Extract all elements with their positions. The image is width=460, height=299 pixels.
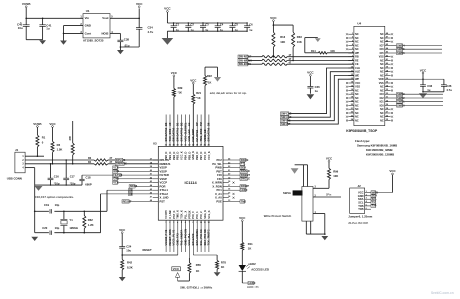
net label RESET at U3 [122, 199, 153, 203]
net label X2 [129, 192, 133, 196]
svg-text:ACCESS LED: ACCESS LED [251, 268, 269, 272]
wire R56 to VCO [178, 280, 190, 282]
svg-text:F46: F46 [217, 177, 222, 181]
svg-text:IO1: IO1 [380, 101, 385, 104]
svg-text:C4: C4 [220, 22, 224, 26]
power net VUSB [22, 2, 31, 18]
svg-text:SW-DATA6: SW-DATA6 [207, 127, 211, 141]
net label TMS at U3 right [229, 199, 247, 203]
svg-text:CL: CL [183, 122, 187, 126]
wire U3 bottom pin 5 [179, 220, 183, 252]
svg-text:TCK_K: TCK_K [180, 210, 184, 219]
svg-text:PIO_0: PIO_0 [191, 211, 195, 219]
power net VCC at cap bank [164, 7, 171, 23]
svg-text:SWENT: SWENT [241, 173, 251, 177]
svg-text:C3: C3 [205, 22, 209, 26]
svg-text:V1: V1 [172, 229, 176, 233]
svg-text:NC: NC [355, 33, 359, 36]
power net VCC above R39 [171, 71, 178, 88]
svg-text:NC: NC [380, 89, 384, 92]
net label SWWP at U3 right [229, 184, 249, 188]
resistor R33 [292, 25, 303, 61]
net SW-WEN0 row [238, 58, 354, 62]
svg-text:PWB: PWB [215, 166, 221, 170]
wire VCC to R33 top [273, 24, 294, 26]
svg-text:C17: C17 [70, 174, 75, 178]
svg-text:NC: NC [355, 93, 359, 96]
svg-text:WE: WE [355, 74, 359, 77]
svg-text:VSS: VSS [379, 56, 384, 59]
gray arrow at switch [291, 168, 299, 173]
svg-text:+: + [20, 20, 22, 24]
net pointer VCO [172, 267, 181, 281]
crystal Y1 [60, 211, 78, 232]
U4 part number label [346, 129, 378, 133]
resistor R39 [172, 86, 183, 146]
wire U3 top pin 30 [187, 115, 191, 147]
resistor R2 [51, 141, 62, 164]
svg-text:R22: R22 [207, 74, 212, 78]
wire U3 top pin 32 [179, 115, 183, 147]
svg-text:1u: 1u [46, 27, 50, 31]
power net VCC at U4 [420, 68, 427, 79]
wire C34 bottom to ground rail [120, 46, 140, 48]
svg-text:K9F1608U0B_32MB: K9F1608U0B_32MB [366, 148, 393, 152]
power net VCC at reset [119, 228, 126, 247]
svg-text:WP: WP [355, 52, 359, 55]
svg-text:RS: RS [168, 229, 172, 233]
wire RESET net [122, 248, 178, 255]
svg-text:RE: RE [355, 59, 359, 62]
microcontroller U3 IC1114 [150, 141, 231, 223]
capacitor C24 [119, 244, 132, 259]
svg-text:SDA: SDA [241, 165, 247, 169]
svg-text:ALE: ALE [355, 71, 360, 74]
ground rail under C16 C17 [35, 184, 82, 185]
connector J2 [350, 184, 365, 214]
wire switch bottom pins [306, 221, 325, 235]
svg-text:R21: R21 [196, 91, 201, 95]
svg-text:VCC: VCC [239, 216, 246, 220]
svg-text:VCC: VCC [171, 71, 178, 75]
capacitor C4 [215, 22, 224, 32]
wire C33 C36 bottom rail [422, 91, 444, 93]
svg-text:V3: V3 [164, 229, 168, 233]
svg-text:PC2: PC2 [216, 158, 222, 162]
svg-text:PB5_D: PB5_D [187, 152, 191, 160]
watermark [431, 291, 454, 295]
svg-text:X_RON: X_RON [212, 184, 221, 188]
net label WRB at J2 [371, 190, 378, 194]
svg-text:D1: D1 [176, 122, 180, 126]
svg-text:XTAL1: XTAL1 [160, 188, 169, 192]
svg-text:R78: R78 [221, 260, 226, 264]
net SW-CLE stair wire [281, 68, 354, 115]
wire U3 top pin 28 [195, 115, 199, 147]
svg-text:4.7u: 4.7u [446, 88, 452, 92]
svg-text:SDA_K: SDA_K [203, 210, 207, 219]
svg-text:IO5: IO5 [380, 52, 385, 55]
svg-text:R14: R14 [311, 50, 316, 53]
svg-text:VCC: VCC [190, 78, 197, 82]
svg-text:10p: 10p [55, 226, 60, 230]
net SWD0 at U4 [391, 103, 443, 107]
svg-text:U1: U1 [86, 9, 90, 13]
svg-text:*1K: *1K [196, 96, 200, 100]
power net VCC at J2 [376, 169, 396, 192]
net label PT1 at U3 right [229, 162, 246, 166]
capacitor C34 [136, 18, 153, 47]
power net VCC above R99 [326, 157, 333, 169]
svg-text:TA: TA [179, 230, 183, 233]
net label SDA at J2 [371, 194, 377, 198]
svg-text:TX0: TX0 [372, 204, 377, 208]
net label SWCLE at U3 right [229, 177, 250, 181]
svg-text:C1: C1 [176, 22, 180, 26]
svg-text:1K: 1K [248, 247, 252, 251]
svg-text:1u: 1u [191, 28, 194, 32]
svg-text:IO2: IO2 [380, 97, 385, 100]
svg-text:SWCLE: SWCLE [241, 177, 251, 181]
svg-text:FC6_SWP: FC6_SWP [191, 129, 195, 142]
svg-text:NOIS: NOIS [101, 31, 108, 35]
resistor R62 [83, 211, 94, 232]
svg-text:VCC: VCC [49, 122, 56, 126]
svg-text:VUSB: VUSB [22, 2, 31, 6]
svg-text:Vout: Vout [102, 16, 108, 20]
svg-text:VCC_CLE33: VCC_CLE33 [183, 126, 187, 142]
crystal bottom wire [35, 232, 101, 234]
net SW-WB stair wire [281, 76, 354, 123]
svg-text:R42: R42 [127, 261, 132, 265]
svg-text:NC: NC [355, 116, 359, 119]
svg-text:SW1A: SW1A [283, 191, 291, 195]
svg-text:10K: 10K [280, 40, 285, 44]
svg-text:10K: 10K [297, 40, 302, 44]
svg-text:TCK_TMS: TCK_TMS [207, 233, 211, 246]
net SW-ALE stair wire [281, 72, 354, 119]
net label X1 [129, 188, 133, 192]
wire U3 bottom pin 4 reset [176, 220, 180, 255]
net label GND at U3 pin 42 [113, 177, 153, 181]
svg-text:X_A0: X_A0 [215, 196, 222, 200]
svg-text:VCC: VCC [326, 157, 333, 161]
svg-text:U3: U3 [153, 141, 157, 145]
wire switch pin3 [313, 187, 329, 189]
svg-text:VCC: VCC [164, 7, 171, 11]
svg-text:SWCE: SWCE [241, 158, 249, 162]
net SWD6 at U4 [391, 51, 442, 55]
svg-text:C19: C19 [44, 203, 49, 207]
capacitor C20 [42, 226, 59, 235]
power net VCC at R2 [49, 122, 56, 142]
svg-text:X_WRN: X_WRN [212, 181, 222, 185]
svg-text:1u: 1u [205, 28, 208, 32]
svg-text:PB4_D: PB4_D [183, 152, 187, 160]
resistor R30 [68, 121, 74, 165]
svg-text:GND_TA2: GND_TA2 [176, 233, 180, 246]
svg-text:C5: C5 [235, 22, 239, 26]
wire XTAL2 to crystal [101, 194, 153, 233]
wire U1 GND pin2 [63, 26, 83, 41]
svg-text:R1: R1 [42, 136, 46, 140]
net label SWENT at U3 right [229, 173, 251, 177]
svg-text:1u: 1u [235, 28, 238, 32]
svg-text:VSS: VSS [379, 82, 384, 85]
wire switch pin1 [313, 212, 325, 234]
resistor R14 [305, 38, 354, 54]
svg-text:NC: NC [355, 108, 359, 111]
wire U3 bottom pin 8 r78 [191, 220, 217, 255]
svg-text:NC: NC [380, 112, 384, 115]
svg-text:SWALE: SWALE [241, 169, 251, 173]
ground under cap bank [162, 38, 174, 45]
svg-text:Cont: Cont [85, 31, 92, 35]
svg-text:X1: X1 [129, 188, 133, 192]
svg-text:VCN_LE0: VCN_LE0 [187, 129, 191, 142]
svg-text:C38: C38 [124, 37, 130, 41]
power net VCC above R13 [270, 16, 277, 25]
capacitor C33 [420, 79, 433, 92]
svg-text:NC: NC [380, 41, 384, 44]
wire U1 Cont pin3 [64, 32, 84, 34]
svg-text:NC: NC [355, 41, 359, 44]
svg-text:VDD: VDD [378, 78, 383, 81]
svg-text:C33: C33 [427, 84, 432, 88]
net label SWCE at U3 right [229, 158, 249, 162]
net SWD5 at U4 [391, 47, 442, 51]
svg-text:K9F0808U0B_TSOP: K9F0808U0B_TSOP [346, 129, 378, 133]
svg-text:VCC1_LE: VCC1_LE [203, 129, 207, 141]
net label GND at U3 pin 40 [113, 169, 153, 173]
svg-text:LED0 : P1: LED0 : P1 [247, 286, 259, 289]
resistor R42 [121, 259, 133, 277]
svg-text:C20: C20 [42, 226, 47, 230]
svg-text:PB3_D: PB3_D [176, 152, 180, 160]
svg-text:X2: X2 [129, 192, 133, 196]
cap bank top rail [167, 22, 247, 24]
resistor R3 series [88, 157, 113, 161]
svg-text:300: 300 [68, 136, 72, 141]
ground under C33 [419, 93, 427, 98]
power net VUSB at R1 [33, 122, 41, 135]
wire cap bottoms rail [26, 39, 42, 41]
note write protect [264, 214, 292, 218]
LED LED2 ACCESS [239, 262, 269, 283]
svg-text:XTAL2: XTAL2 [160, 192, 169, 196]
switch SW1 body [283, 187, 313, 222]
svg-text:D6: D6 [207, 122, 211, 126]
svg-text:POR: POR [160, 184, 166, 188]
svg-text:LE: LE [187, 122, 191, 126]
wire J1 pin4 GND [25, 168, 35, 186]
svg-text:PC0_D: PC0_D [203, 152, 207, 160]
ground under C41 [39, 40, 46, 44]
svg-text:PC1: PC1 [216, 188, 222, 192]
svg-text:SML-32THD(L) : x 36MHz: SML-32THD(L) : x 36MHz [180, 285, 213, 289]
svg-text:TMS_SW0: TMS_SW0 [199, 128, 203, 141]
svg-text:10K: 10K [333, 174, 338, 178]
svg-text:1u: 1u [220, 28, 223, 32]
svg-text:VSSP: VSSP [160, 177, 167, 181]
svg-text:R56: R56 [196, 263, 201, 267]
U3 right no-connect [233, 197, 235, 199]
svg-text:U4: U4 [357, 21, 361, 25]
svg-text:VUSB: VUSB [33, 122, 41, 126]
net label SWALE at U3 right [229, 169, 250, 173]
svg-text:RB: RB [355, 56, 359, 59]
wire U3 bottom pin 3 [172, 220, 176, 252]
svg-text:FILTER: FILTER [113, 173, 122, 177]
U3 right no-connect [233, 182, 235, 184]
svg-text:R39: R39 [178, 86, 183, 90]
svg-text:SW-DATA5: SW-DATA5 [164, 127, 168, 141]
ground under U1 GND [60, 41, 67, 45]
gray arrow node above R14 [305, 38, 321, 42]
svg-text:SDA_PIO: SDA_PIO [203, 234, 207, 246]
svg-text:CLE: CLE [355, 67, 360, 70]
svg-text:SCL_K: SCL_K [207, 210, 211, 219]
svg-text:IO7: IO7 [380, 44, 385, 47]
svg-text:SC: SC [199, 229, 203, 233]
svg-text:.01u: .01u [124, 44, 130, 48]
svg-text:VCC1_PL: VCC1_PL [172, 233, 176, 245]
resistor R11 [241, 242, 253, 265]
svg-text:VCO_PLL: VCO_PLL [187, 233, 191, 246]
ground under R42 [119, 277, 126, 281]
net label SWD6 [129, 184, 153, 188]
svg-text:C2: C2 [191, 22, 195, 26]
net label SDA at U3 right [229, 165, 246, 169]
wire U3 bottom pin 11 [203, 220, 207, 252]
wire U3 bottom pin 12 [207, 220, 211, 252]
resistor R78 [216, 255, 227, 272]
wire J1 pin1 VBUS [25, 155, 44, 157]
power net VCC at regulator output [136, 2, 143, 18]
svg-text:R33: R33 [297, 35, 302, 39]
resistor R4 series [88, 161, 113, 165]
voltage regulator U1 [80, 9, 113, 43]
svg-text:1u: 1u [249, 28, 252, 32]
svg-text:SWA-MS0: SWA-MS0 [195, 233, 199, 246]
note C16 C17 [35, 195, 74, 199]
svg-text:PST: PST [160, 199, 166, 203]
svg-text:NA-RP33: NA-RP33 [195, 130, 199, 142]
wire U3 bottom pin 10 [199, 220, 203, 252]
J2 pin stubs [365, 191, 371, 210]
wire U3 top pin 27 [199, 115, 203, 147]
svg-text:VSSP: VSSP [160, 166, 167, 170]
svg-text:D2: D2 [179, 122, 183, 126]
wire J1 pin3 D+ [25, 163, 94, 165]
ground under C38 [117, 50, 124, 54]
cap bank bottom rail [167, 31, 247, 38]
svg-text:C34: C34 [148, 26, 154, 30]
svg-text:K9F2808U0B_128MB: K9F2808U0B_128MB [366, 152, 394, 156]
capacitor C17 [63, 159, 76, 185]
svg-text:NC: NC [355, 44, 359, 47]
note about wires [210, 91, 247, 95]
wire U3 top pin 25 [207, 115, 211, 147]
U3 right no-connect [233, 193, 235, 195]
svg-text:Write Protect Switch: Write Protect Switch [264, 214, 292, 218]
capacitor C5 [229, 22, 238, 32]
svg-text:PB1_D: PB1_D [168, 152, 172, 160]
power net VCC above R21 [190, 78, 197, 94]
svg-text:C36: C36 [446, 84, 451, 88]
svg-text:TC: TC [207, 229, 211, 233]
svg-text:SeekIC.com.cn: SeekIC.com.cn [431, 291, 454, 295]
svg-text:12MHz: 12MHz [69, 226, 78, 230]
wire switch pin2 [313, 193, 341, 197]
svg-text:1.2K: 1.2K [88, 223, 94, 227]
net SW-NCEF row [238, 54, 354, 58]
net label DPLUS [108, 158, 158, 162]
wire U1 Vout to VCC node [110, 18, 140, 20]
resistor R21 [191, 91, 202, 146]
svg-text:NC: NC [380, 63, 384, 66]
svg-text:NC: NC [380, 108, 384, 111]
svg-text:NC: NC [380, 74, 384, 77]
svg-text:LED0: LED0 [249, 281, 256, 285]
svg-text:SW-DATA0: SW-DATA0 [172, 127, 176, 141]
svg-text:SW-DATA1: SW-DATA1 [176, 127, 180, 141]
svg-text:Vin: Vin [85, 16, 90, 20]
resistor R56 [188, 258, 201, 281]
net label TX1 at J2 [371, 200, 377, 204]
svg-text:PIO_1: PIO_1 [195, 211, 199, 219]
svg-text:R99: R99 [333, 169, 338, 173]
net label VCC at U3 pin 43 [113, 180, 153, 184]
svg-text:NC: NC [355, 37, 359, 40]
net label LED0 at U3 right [229, 188, 248, 192]
wire switch common ground [295, 165, 308, 187]
svg-text:VSS: VSS [355, 86, 360, 89]
svg-text:NC: NC [380, 59, 384, 62]
svg-text:NC: NC [355, 112, 359, 115]
net label SCL at J2 [371, 197, 377, 201]
capacitor C3 [200, 22, 209, 32]
svg-text:CE: CE [355, 63, 359, 66]
resistor R99 [328, 168, 339, 188]
wire crystal ground [34, 185, 36, 233]
svg-text:VCCP0: VCCP0 [164, 210, 168, 219]
svg-text:Samsung K9F0808U0B_16MB: Samsung K9F0808U0B_16MB [357, 143, 397, 147]
gray arrow at R22 [214, 67, 221, 82]
svg-text:VCC: VCC [420, 68, 427, 72]
svg-text:VCC: VCC [307, 71, 314, 75]
svg-text:VCC: VCC [389, 169, 396, 173]
svg-text:Y1: Y1 [69, 218, 73, 222]
svg-text:NC: NC [380, 71, 384, 74]
svg-text:PT1: PT1 [241, 162, 246, 166]
svg-text:RESET_N: RESET_N [168, 233, 172, 245]
svg-text:SWWP: SWWP [241, 184, 250, 188]
note J2 usage [348, 221, 369, 225]
svg-text:10u: 10u [126, 249, 131, 253]
capacitor C6 [244, 22, 253, 32]
svg-text:WP: WP [355, 78, 359, 81]
ground under switch [321, 236, 328, 240]
wire U3 bottom pin 7 vco [187, 220, 191, 258]
svg-text:10K: 10K [330, 50, 335, 53]
svg-text:8.2K: 8.2K [127, 265, 133, 269]
svg-text:F16: F16 [217, 173, 222, 177]
resistor R22 [203, 67, 218, 146]
svg-text:LED2: LED2 [249, 262, 256, 266]
svg-text:PSE: PSE [216, 199, 222, 203]
svg-text:VCC33_P: VCC33_P [164, 233, 168, 245]
